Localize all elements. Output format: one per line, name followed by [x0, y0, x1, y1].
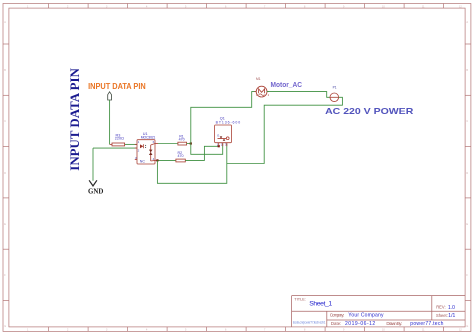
svg-text:power77.tech: power77.tech	[410, 321, 443, 327]
wire: node A to Q1 gate (pin2)	[191, 144, 223, 155]
svg-text:1/1: 1/1	[448, 313, 455, 319]
svg-text:INPUT DATA PIN: INPUT DATA PIN	[88, 82, 146, 91]
resistor R3	[110, 143, 125, 146]
motor M1	[254, 86, 269, 97]
label R2	[178, 151, 184, 158]
resistor R1	[178, 142, 187, 145]
svg-text:Sheet_1: Sheet_1	[309, 301, 332, 308]
svg-text:Motor_AC: Motor_AC	[271, 80, 303, 89]
svg-text:Sheet:: Sheet:	[436, 313, 448, 318]
optocoupler U1 MOC3021	[135, 140, 158, 164]
svg-text:Date:: Date:	[331, 321, 342, 326]
wire: GND stem	[92, 148, 94, 181]
pin INPUT DATA PIN terminal	[108, 92, 112, 100]
photo triac inside	[150, 145, 152, 161]
svg-text:lceda.cn/power77.tech-sch1: lceda.cn/power77.tech-sch1	[293, 321, 326, 325]
wire: U1 pin4 node to R2	[158, 159, 176, 161]
svg-text:G: G	[466, 325, 468, 328]
wire: motor M1 right to connector P1	[267, 92, 330, 98]
connector P1 (AC source)	[330, 93, 339, 102]
label R1	[179, 135, 185, 142]
svg-text:INPUT DATA PIN: INPUT DATA PIN	[68, 68, 82, 171]
LED inside	[140, 144, 143, 148]
svg-text:220Ω: 220Ω	[115, 137, 124, 141]
net flag INPUT DATA PIN (vertical net name)	[68, 68, 82, 171]
node B junction (U1 pin4)	[156, 159, 158, 161]
label M1	[256, 77, 261, 81]
svg-text:D: D	[466, 172, 468, 175]
wire: GND to U1 pin2	[93, 147, 137, 149]
svg-text:C: C	[4, 120, 6, 123]
ground	[88, 180, 104, 195]
svg-text:G: G	[4, 325, 6, 328]
svg-text:M1: M1	[256, 77, 261, 81]
label Q1 BT136-600	[216, 117, 241, 125]
svg-text:GND: GND	[88, 187, 104, 196]
svg-text:REV:: REV:	[436, 305, 445, 310]
svg-text:Company:: Company:	[330, 312, 345, 317]
svg-text:2019-06-12: 2019-06-12	[345, 321, 375, 327]
triac Q1 BT136-600	[215, 125, 232, 146]
wire: node B loop to Q1 pin3	[157, 144, 226, 184]
pin numbers U1	[135, 140, 155, 164]
wire: P1 right down to Q1 pin3 net	[227, 97, 343, 163]
label Motor_AC	[271, 80, 303, 89]
node A junction	[190, 142, 192, 144]
label R3	[115, 133, 124, 140]
svg-text:AC 220 V POWER: AC 220 V POWER	[325, 106, 413, 116]
pin numbers Q1	[217, 134, 227, 147]
svg-text:D: D	[4, 172, 6, 175]
internal triac symbol	[218, 138, 227, 140]
svg-text:NC: NC	[140, 159, 146, 163]
pin stubs	[135, 143, 137, 145]
label AC 220 V POWER	[325, 106, 413, 116]
wire: R3 to U1 pin1	[125, 143, 137, 145]
resistor R2	[176, 159, 185, 162]
net label INPUT DATA PIN	[88, 82, 146, 91]
label U1 MOC3021	[141, 132, 156, 139]
title block (decorative)	[292, 296, 466, 327]
wire: R2 to Q1 pin1 node	[185, 146, 218, 160]
wire: R1 to node A	[187, 143, 191, 145]
wire: U1 pin6 to R1	[158, 143, 178, 145]
svg-text:Drawn By:: Drawn By:	[386, 321, 402, 326]
svg-text:C: C	[466, 120, 468, 123]
svg-text:Your Company: Your Company	[348, 313, 384, 319]
svg-text:470: 470	[179, 137, 185, 141]
wire: input pin down to R3	[109, 100, 111, 145]
svg-text:TITLE:: TITLE:	[294, 296, 306, 301]
svg-text:MOC3021: MOC3021	[141, 135, 156, 139]
label P1	[333, 86, 337, 90]
svg-text:1.0: 1.0	[448, 305, 455, 311]
svg-text:P1: P1	[333, 86, 337, 90]
svg-text:470: 470	[178, 154, 184, 158]
node C junction (Q1 pin1)	[218, 145, 220, 147]
svg-text:BT136-600: BT136-600	[216, 121, 241, 125]
wire: node A up and over to motor M1	[191, 92, 257, 144]
